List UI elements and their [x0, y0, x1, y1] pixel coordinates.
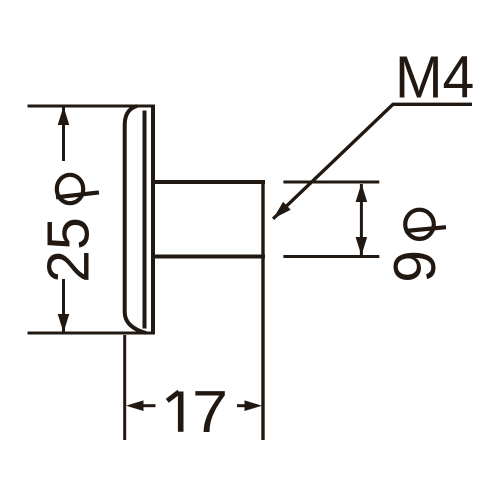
label M4 leader line — [273, 104, 472, 219]
dim 17: left arrow — [126, 400, 144, 411]
dim 25: phi symbol circle — [57, 175, 83, 203]
dim 25: top extension line — [28, 105, 155, 108]
dim 9: top extension line — [283, 181, 379, 184]
dim 17: label digit 1 flag — [167, 392, 179, 401]
svg-text:M4: M4 — [395, 45, 474, 111]
dim 25: bottom extension line — [28, 332, 155, 335]
dim 9: down arrow — [356, 237, 368, 256]
dim 17: label digit 1 stem — [178, 392, 184, 432]
dim 9: phi symbol circle — [405, 210, 434, 239]
dim 25: up arrow — [58, 107, 70, 126]
part body: stem right edge + dim extension line — [261, 182, 264, 440]
part body: stem top edge — [151, 180, 265, 184]
dim 25: dimension line bottom segment — [62, 279, 65, 332]
dim 17: right arrow — [245, 400, 263, 411]
part body: flange inner edge line — [143, 111, 147, 329]
svg-text:9: 9 — [382, 250, 448, 283]
dim 17: left extension line — [123, 335, 126, 440]
dim 9: up arrow — [356, 184, 368, 203]
dim 25: down arrow — [58, 314, 70, 333]
dim 9: dimension line — [360, 184, 363, 255]
part body: stem bottom edge — [151, 255, 265, 259]
dim 17: right dim segment — [237, 404, 248, 407]
dim 9: bottom extension line — [283, 255, 379, 258]
part body: flange left face outline — [125, 106, 146, 333]
part body: flange right edge — [151, 105, 155, 335]
dim 17: left dim segment — [140, 404, 156, 407]
dim 25: dimension line top segment — [62, 107, 65, 161]
svg-text:7: 7 — [192, 380, 228, 446]
label M4 leader arrowhead — [273, 202, 291, 219]
dim 9: phi symbol stroke — [405, 227, 446, 231]
svg-text:25: 25 — [35, 217, 101, 283]
dim 25: phi symbol stroke — [56, 192, 99, 197]
